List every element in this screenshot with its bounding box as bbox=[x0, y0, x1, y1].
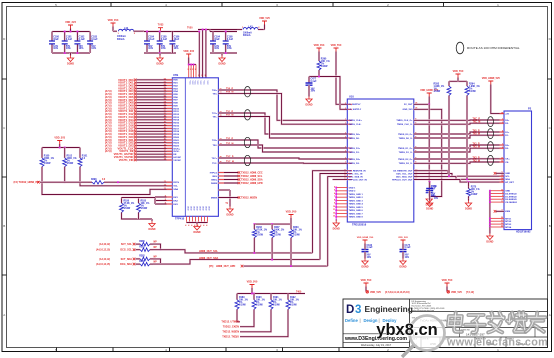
svg-text:SDA: SDA bbox=[505, 178, 510, 181]
svg-text:HD11F19A62: HD11F19A62 bbox=[516, 231, 531, 234]
svg-text:1/10W: 1/10W bbox=[471, 194, 478, 196]
node terminal VOUT1_D13 bbox=[134, 116, 137, 119]
ground DGND (cap bank 2) bbox=[159, 53, 161, 56]
svg-text:RD12: RD12 bbox=[173, 114, 179, 116]
resistor R101 bbox=[79, 148, 81, 156]
ground DGND (C196) bbox=[362, 259, 368, 265]
wire cap bank1 bottom bus bbox=[52, 52, 90, 54]
svg-text:0.1uF: 0.1uF bbox=[161, 38, 168, 41]
wire TX0_M to connector bbox=[414, 135, 504, 138]
svg-text:48: 48 bbox=[164, 118, 166, 121]
svg-text:Define: Define bbox=[345, 318, 358, 323]
wire NP row join bbox=[153, 244, 161, 250]
wire TXC_P to connector bbox=[414, 119, 504, 121]
svg-text:TMDS_D2_O+: TMDS_D2_O+ bbox=[398, 159, 413, 161]
svg-text:GND: GND bbox=[201, 206, 203, 211]
inductor L43 bbox=[237, 28, 242, 30]
op IC U10 TPD12S016 body bbox=[347, 99, 414, 222]
svg-text:D2-SHIELD: D2-SHIELD bbox=[505, 193, 517, 195]
svg-text:RD14: RD14 bbox=[173, 119, 179, 122]
pin TMDS_GND 5 of U10 bbox=[336, 206, 347, 208]
node terminal VOUT1_D17 bbox=[134, 127, 137, 130]
ground DGND (U7 bottom) bbox=[196, 223, 198, 225]
svg-text:5: 5 bbox=[334, 190, 335, 192]
svg-text:RD1: RD1 bbox=[173, 83, 178, 85]
svg-text:VDD_3V3: VDD_3V3 bbox=[54, 137, 65, 140]
svg-text:ybx8.cn: ybx8.cn bbox=[376, 321, 437, 339]
svg-text:HTPLUG_OUT_OUT: HTPLUG_OUT_OUT bbox=[392, 179, 413, 181]
svg-text:11: 11 bbox=[333, 209, 335, 211]
wire net VOUT1_D03 to U7 pin RD3 bbox=[136, 87, 172, 89]
svg-text:1/10W: 1/10W bbox=[141, 208, 148, 210]
wire U7 DK2 pin bbox=[155, 199, 172, 201]
resistor R190 bbox=[253, 294, 255, 298]
svg-text:21: 21 bbox=[501, 220, 503, 222]
wire R293 to SCL line bbox=[448, 98, 450, 176]
svg-text:RD3: RD3 bbox=[173, 88, 178, 90]
capacitor C185 bbox=[159, 32, 161, 42]
wire net VOUT1_D04 to U7 pin RD4 bbox=[136, 90, 172, 92]
pin HP_DET of P2 bbox=[500, 181, 505, 183]
node terminal VOUT1_D16 bbox=[134, 124, 137, 127]
wire cap bank1 top bus bbox=[52, 30, 90, 32]
svg-text:VCC: VCC bbox=[206, 81, 208, 86]
svg-text:46: 46 bbox=[164, 123, 166, 126]
wire net VOUT1_D05 to U7 pin RD5 bbox=[136, 93, 172, 95]
svg-text:VDD_3V3: VDD_3V3 bbox=[65, 21, 76, 24]
svg-text:12: 12 bbox=[333, 212, 335, 214]
svg-text:Wednesday, July 19, 2017: Wednesday, July 19, 2017 bbox=[361, 343, 392, 347]
wire U7 DK3 pin bbox=[155, 203, 172, 205]
node terminal VOUT1_D03 bbox=[134, 87, 137, 90]
resistor R185 bbox=[137, 201, 139, 204]
svg-text:7: 7 bbox=[502, 144, 503, 146]
power symbol VDD_5V0 tap 2 bbox=[445, 283, 450, 287]
svg-text:KSM: KSM bbox=[505, 211, 510, 213]
svg-text:TX1_P: TX1_P bbox=[473, 144, 480, 146]
svg-text:62: 62 bbox=[164, 79, 166, 81]
svg-text:1/10W: 1/10W bbox=[290, 305, 297, 307]
capacitor C477 bbox=[318, 73, 320, 77]
wire SDA riser to U10 bbox=[320, 174, 347, 260]
svg-text:TMDS_CLK_O-: TMDS_CLK_O- bbox=[397, 124, 413, 126]
svg-text:TX1-: TX1- bbox=[212, 116, 217, 118]
node terminal VOUT1_D04 bbox=[134, 90, 137, 93]
svg-text:40: 40 bbox=[164, 140, 166, 143]
wire DDC SCL to connector bbox=[414, 174, 504, 177]
wire cap bank3 top bus bbox=[198, 28, 237, 30]
svg-text:T400: T400 bbox=[296, 290, 302, 293]
ground DGND (R275) bbox=[467, 198, 469, 200]
pin MTG3 of P2 bbox=[490, 223, 504, 225]
node terminal VOUT1_DE bbox=[134, 150, 137, 153]
ground DGND (pullup bank) bbox=[151, 219, 153, 221]
svg-text:R280: R280 bbox=[139, 241, 145, 243]
diff pair ellipse U7 3 bbox=[244, 155, 250, 165]
svg-text:13: 13 bbox=[164, 188, 166, 190]
pin TMDS_GND 4 of U10 bbox=[336, 203, 347, 205]
svg-text:3: 3 bbox=[195, 69, 196, 71]
svg-text:TXD12_UTMS0: TXD12_UTMS0 bbox=[221, 321, 239, 324]
pin GND 2 of U10 bbox=[336, 190, 347, 192]
svg-text:1/10W: 1/10W bbox=[273, 305, 280, 307]
svg-text:RD9: RD9 bbox=[173, 105, 178, 107]
svg-text:10uF: 10uF bbox=[53, 38, 59, 41]
svg-text:RD5: RD5 bbox=[173, 94, 178, 96]
wire net VOUT1_D16 to U7 pin RD16 bbox=[136, 125, 172, 127]
pin TMDS_GND 3 of U10 bbox=[336, 200, 347, 202]
svg-text:GND: GND bbox=[198, 206, 200, 211]
svg-text:0.1uF: 0.1uF bbox=[311, 81, 318, 83]
svg-text:DGND: DGND bbox=[486, 241, 493, 244]
svg-text:TMDS_D2+: TMDS_D2+ bbox=[349, 159, 361, 161]
svg-text:TX1_M: TX1_M bbox=[473, 147, 480, 149]
svg-text:RD8: RD8 bbox=[173, 103, 178, 105]
svg-text:GND: GND bbox=[505, 191, 510, 193]
svg-text:TMDS_CLK_O+: TMDS_CLK_O+ bbox=[396, 120, 413, 122]
svg-text:IDCK+: IDCK+ bbox=[173, 148, 180, 150]
resistor R294 bbox=[466, 81, 468, 83]
svg-text:(A4,10,12,15): (A4,10,12,15) bbox=[96, 249, 110, 252]
svg-text:GND_5V0: GND_5V0 bbox=[403, 109, 414, 111]
svg-text:TX2_M: TX2_M bbox=[473, 161, 480, 163]
power symbol VDD_5V0 tap 1 bbox=[364, 283, 369, 287]
wire R101 bottom to SCL wire bbox=[80, 169, 172, 186]
power symbol VDD_3V3 (L42) bbox=[111, 23, 116, 27]
svg-text:TMDS_D1-: TMDS_D1- bbox=[349, 152, 360, 154]
node terminal VOUT1_D18 bbox=[134, 130, 137, 133]
diff pair ellipse U7 0 bbox=[244, 87, 250, 97]
svg-text:B: B bbox=[549, 224, 551, 228]
resistor R290 bbox=[318, 52, 320, 59]
wire VDD_5V0 to U10 IN_SUPPLY bbox=[336, 52, 347, 105]
capacitor C184 bbox=[146, 32, 148, 42]
capacitor C183 bbox=[89, 32, 91, 42]
svg-text:RST#: RST# bbox=[173, 182, 179, 184]
svg-text:7: 7 bbox=[345, 151, 346, 153]
svg-text:D1-: D1- bbox=[505, 135, 509, 137]
svg-text:D1-SHIELD: D1-SHIELD bbox=[505, 196, 517, 198]
svg-text:0.1uF: 0.1uF bbox=[227, 38, 234, 41]
pin pair D1+/D1- of P2 bbox=[500, 131, 505, 133]
wire DDC pullup bus bbox=[449, 80, 467, 82]
svg-text:10: 10 bbox=[501, 158, 503, 160]
svg-text:3: 3 bbox=[201, 75, 202, 77]
svg-text:1/10W: 1/10W bbox=[124, 208, 131, 210]
capacitor C194 bbox=[212, 32, 214, 42]
pin pair TMDS_D2+ of U10 left bbox=[347, 158, 352, 160]
svg-text:U10: U10 bbox=[349, 94, 354, 98]
svg-text:IDCK-: IDCK- bbox=[173, 151, 179, 153]
wire bottom bank bus bbox=[237, 292, 305, 294]
wire 5V_OUT to VDD_HDMI_5V0 bbox=[414, 97, 429, 105]
pin MTG4 of P2 bbox=[490, 226, 504, 228]
wire net VOUT1_D02 to U7 pin RD2 bbox=[136, 84, 172, 86]
svg-text:1/10W: 1/10W bbox=[67, 163, 74, 165]
svg-text:DGND: DGND bbox=[67, 63, 74, 66]
svg-text:7: 7 bbox=[345, 147, 346, 149]
wire net VOUT1_VSYNC to U7 pin HSYNC bbox=[136, 156, 172, 158]
svg-text:0.1uF: 0.1uF bbox=[66, 38, 73, 41]
wire net VOUT1_D17 to U7 pin RD17 bbox=[136, 127, 172, 129]
resistor R275 bbox=[468, 181, 470, 183]
wire R190 to TXD12_CKEN bbox=[240, 312, 254, 327]
title block dividers bbox=[409, 299, 411, 348]
watermark magnifier glass bbox=[410, 316, 445, 351]
svg-text:DDC_SCL_IN: DDC_SCL_IN bbox=[349, 173, 363, 175]
svg-text:13: 13 bbox=[501, 189, 503, 191]
svg-text:41: 41 bbox=[164, 138, 166, 141]
wire R102 bottom to RST wire bbox=[64, 169, 66, 182]
capacitor C182 bbox=[76, 32, 78, 42]
svg-text:DGND: DGND bbox=[148, 228, 155, 231]
diff pair ellipse U7 2 bbox=[244, 137, 250, 147]
wire net VOUT1_D15 to U7 pin RD15 bbox=[136, 122, 172, 124]
svg-text:RD6: RD6 bbox=[173, 97, 178, 99]
svg-text:TMDS_GND 7: TMDS_GND 7 bbox=[349, 213, 364, 215]
svg-text:CE_REMOTE_IN: CE_REMOTE_IN bbox=[349, 171, 366, 173]
svg-text:D: D bbox=[346, 304, 354, 316]
svg-text:13: 13 bbox=[333, 216, 335, 218]
svg-text:52: 52 bbox=[164, 107, 166, 109]
svg-text:GND: GND bbox=[189, 206, 191, 211]
op IC U7 TFP410 body bbox=[172, 78, 218, 217]
svg-text:23: 23 bbox=[501, 226, 503, 228]
pin TMDS_GND 6 of U10 bbox=[336, 209, 347, 211]
svg-text:RD13: RD13 bbox=[173, 117, 179, 119]
ground DGND (cap bank 3) bbox=[221, 53, 223, 56]
svg-text:ISEL: ISEL bbox=[212, 176, 218, 178]
svg-text:TXC_M: TXC_M bbox=[473, 122, 481, 124]
power symbol VDD_5V0 (bottom bank) bbox=[250, 285, 255, 289]
svg-text:39: 39 bbox=[164, 144, 166, 146]
node terminal VOUT1_FID bbox=[134, 159, 137, 162]
power flag TV33 bbox=[158, 28, 163, 32]
svg-text:1/10W: 1/10W bbox=[434, 91, 441, 93]
resistor R207 bbox=[271, 224, 273, 227]
wire net VOUT1_D21 to U7 pin RD21 bbox=[136, 139, 172, 141]
wire net VOUT1_D13 to U7 pin RD13 bbox=[136, 116, 172, 118]
pin TMDS_GND 1 of U10 bbox=[336, 193, 347, 195]
wire net VOUT1_D06 to U7 pin RD6 bbox=[136, 96, 172, 98]
svg-text:B: B bbox=[3, 224, 5, 228]
wire net VOUT1_HSYNC to U7 pin DE bbox=[136, 153, 172, 155]
annotation ellipse route note bbox=[456, 42, 464, 54]
wire R207 to bus below bbox=[271, 240, 273, 260]
svg-text:1000mA: 1000mA bbox=[117, 35, 126, 38]
pin D2-SHIELD of P2 bbox=[490, 193, 504, 195]
wire CE_REMOTE_OUT stub bbox=[414, 170, 448, 172]
svg-text:10%: 10% bbox=[431, 196, 436, 198]
svg-text:TXC_P: TXC_P bbox=[473, 119, 481, 121]
svg-text:VDD_5V0: VDD_5V0 bbox=[331, 44, 342, 47]
svg-text:TXD12_MSEN: TXD12_MSEN bbox=[241, 196, 257, 199]
svg-text:[F5]: [F5] bbox=[209, 266, 213, 268]
svg-text:7: 7 bbox=[345, 158, 346, 160]
svg-text:10%: 10% bbox=[405, 257, 410, 259]
wire net VOUT1_DE to U7 pin IDCK- bbox=[136, 150, 172, 152]
node terminal VOUT1_D20 bbox=[134, 136, 137, 139]
ground DGND (C176) bbox=[426, 197, 432, 203]
svg-text:LS_SUPPLY: LS_SUPPLY bbox=[349, 109, 362, 111]
resistor R282 bbox=[136, 258, 138, 260]
svg-text:8: 8 bbox=[165, 196, 166, 198]
resistor R102 bbox=[64, 148, 66, 156]
wire U10 ground pin bus bbox=[335, 188, 337, 220]
power symbol VDD_5V0 (C175) bbox=[401, 240, 406, 244]
svg-text:[7,5,12]: [7,5,12] bbox=[466, 292, 474, 294]
svg-text:+5V: +5V bbox=[505, 114, 509, 116]
svg-text:VCC: VCC bbox=[199, 81, 201, 86]
svg-text:45: 45 bbox=[164, 126, 166, 129]
wire TX1_P to connector bbox=[414, 145, 504, 148]
wire VDD_HDMI_5V0 to connector +5V pin bbox=[491, 85, 504, 114]
wire DDC SDA to connector bbox=[414, 177, 504, 180]
svg-text:7: 7 bbox=[345, 133, 346, 135]
svg-text:VCC: VCC bbox=[193, 81, 195, 86]
svg-text:8: 8 bbox=[165, 199, 166, 201]
ground DGND (U10 gnd bus) bbox=[335, 220, 337, 221]
wire cap bank3 buses bbox=[209, 30, 211, 32]
svg-text:36: 36 bbox=[164, 153, 166, 155]
svg-text:HDMI_OUT_SCL: HDMI_OUT_SCL bbox=[199, 250, 218, 253]
diff pair ellipse conn 3 bbox=[488, 155, 494, 165]
svg-text:1/10W: 1/10W bbox=[293, 235, 300, 237]
svg-text:600mA: 600mA bbox=[243, 34, 251, 37]
svg-text:P2: P2 bbox=[528, 106, 532, 110]
svg-text:TX2+: TX2+ bbox=[212, 140, 218, 142]
svg-text:0.1uF: 0.1uF bbox=[405, 247, 412, 249]
power symbol VDD_HDMI_5V0 bbox=[427, 93, 432, 97]
svg-text:TXD12_CKEN: TXD12_CKEN bbox=[223, 326, 239, 329]
svg-text:HDMI_OUT_SDA: HDMI_OUT_SDA bbox=[199, 257, 218, 260]
capacitor C181 bbox=[64, 32, 66, 42]
svg-text:16V: 16V bbox=[434, 198, 439, 200]
svg-text:TX2-: TX2- bbox=[212, 145, 217, 147]
wire net VOUT1_D14 to U7 pin RD14 bbox=[136, 119, 172, 121]
svg-text:20: 20 bbox=[501, 217, 503, 219]
svg-text:RD10: RD10 bbox=[173, 108, 179, 110]
svg-text:GND: GND bbox=[207, 206, 209, 211]
svg-text:VDD_5V0: VDD_5V0 bbox=[442, 279, 453, 282]
svg-text:RD18: RD18 bbox=[173, 131, 179, 133]
svg-text:CK-SHIELD: CK-SHIELD bbox=[505, 202, 517, 204]
wire CE riser to U10 bbox=[333, 178, 348, 180]
svg-text:1/10W: 1/10W bbox=[239, 305, 246, 307]
svg-text:3: 3 bbox=[502, 122, 503, 124]
svg-text:VDD_3V3: VDD_3V3 bbox=[314, 44, 325, 47]
svg-text:TX2_P: TX2_P bbox=[473, 157, 480, 159]
svg-text:RD19: RD19 bbox=[173, 134, 179, 136]
svg-text:HTPLG: HTPLG bbox=[210, 172, 218, 174]
svg-text:10uF: 10uF bbox=[214, 38, 220, 41]
svg-text:TV33: TV33 bbox=[158, 24, 164, 27]
svg-text:TX1+: TX1+ bbox=[212, 113, 218, 115]
svg-text:TMDS_D1_O+: TMDS_D1_O+ bbox=[398, 148, 413, 150]
svg-text:3: 3 bbox=[355, 304, 361, 316]
svg-text:CE_REMOTE_OUT: CE_REMOTE_OUT bbox=[393, 171, 413, 173]
svg-text:10%: 10% bbox=[367, 257, 372, 259]
wire net VOUT1_D23 to U7 pin RD23 bbox=[136, 145, 172, 147]
svg-text:CK-: CK- bbox=[505, 162, 509, 164]
svg-text:TMDS_CLK-: TMDS_CLK- bbox=[349, 124, 362, 126]
resistor R298 bbox=[88, 181, 92, 183]
node terminal VOUT1_D14 bbox=[134, 119, 137, 122]
svg-text:DGND: DGND bbox=[333, 228, 340, 231]
wire R209 to bus below bbox=[290, 240, 292, 266]
svg-text:7: 7 bbox=[345, 162, 346, 164]
svg-text:57: 57 bbox=[164, 93, 166, 95]
pin MTG2 of P2 bbox=[490, 220, 504, 222]
pin D1-SHIELD of P2 bbox=[490, 195, 504, 197]
svg-text:VCC: VCC bbox=[203, 81, 205, 86]
svg-text:DE: DE bbox=[173, 154, 177, 156]
svg-text:(A7,6): (A7,6) bbox=[105, 150, 112, 153]
svg-text:DGND: DGND bbox=[156, 63, 163, 66]
pin D0-SHIELD of P2 bbox=[490, 198, 504, 200]
node terminal VOUT1_VSYNC bbox=[134, 156, 137, 159]
svg-text:5V_OUT: 5V_OUT bbox=[404, 104, 413, 106]
svg-text:SCL: SCL bbox=[505, 176, 510, 178]
ground DGND (cap bank 1) bbox=[69, 53, 71, 56]
svg-text:TV50: TV50 bbox=[187, 28, 193, 30]
node terminal VOUT1_D10 bbox=[134, 107, 137, 110]
svg-text:600mA: 600mA bbox=[117, 38, 125, 41]
svg-text:VDD_5V0: VDD_5V0 bbox=[370, 291, 381, 294]
svg-text:D2+: D2+ bbox=[505, 120, 510, 122]
wire R192 to TXD12_TXD[U bbox=[240, 312, 288, 337]
wire HDMI_INT to U7 RST pin bbox=[40, 181, 88, 183]
svg-text:2: 2 bbox=[502, 192, 503, 194]
wire differential pair TX0_P bbox=[218, 90, 347, 120]
diff pair ellipse conn 1 bbox=[488, 129, 494, 139]
wire net VOUT1_D07 to U7 pin RD7 bbox=[136, 99, 172, 101]
svg-text:1: 1 bbox=[502, 119, 503, 121]
svg-text:GND: GND bbox=[186, 206, 188, 211]
svg-text:VDD_5V0: VDD_5V0 bbox=[259, 17, 270, 20]
wire differential pair TX2_P bbox=[218, 140, 347, 148]
svg-text:6: 6 bbox=[334, 193, 335, 195]
svg-text:50: 50 bbox=[164, 113, 166, 115]
pin pair TMDS_CLK+ of U10 left bbox=[347, 119, 352, 121]
svg-text:49: 49 bbox=[164, 115, 166, 118]
wire net VOUT1_D09 to U7 pin RD9 bbox=[136, 104, 172, 106]
wire SCL riser to U10 bbox=[313, 171, 348, 253]
wire net VOUT1_D22 to U7 pin RD22 bbox=[136, 142, 172, 144]
node terminal VOUT1_D12 bbox=[134, 113, 137, 116]
svg-text:DDC_SDA_IN: DDC_SDA_IN bbox=[349, 176, 363, 179]
resistor R189 bbox=[236, 294, 238, 298]
svg-text:3: 3 bbox=[205, 75, 206, 77]
wire NP row join bbox=[153, 259, 161, 264]
svg-text:MSEN: MSEN bbox=[211, 197, 218, 199]
wire GND_5V0 to ground bbox=[414, 109, 442, 196]
svg-text:TX0-: TX0- bbox=[212, 93, 217, 95]
node terminal VOUT1_D00 bbox=[134, 79, 137, 82]
svg-text:VDD_3V3: VDD_3V3 bbox=[108, 19, 119, 22]
ground DGND (U7 MSEN) bbox=[227, 207, 233, 213]
pin pair D2+/D2- of P2 bbox=[500, 119, 505, 121]
svg-text:R283: R283 bbox=[139, 261, 145, 263]
svg-text:1/10W: 1/10W bbox=[469, 91, 476, 93]
svg-text:VDD_HDMI_5V0: VDD_HDMI_5V0 bbox=[482, 77, 501, 80]
svg-text:3: 3 bbox=[198, 75, 199, 77]
wire R186 R185 tops bbox=[120, 198, 122, 201]
svg-text:VDD_5V0: VDD_5V0 bbox=[361, 279, 372, 282]
svg-text:(A4,10,12): (A4,10,12) bbox=[99, 258, 110, 261]
pin HTPLUG_OUT_IN of U10 bbox=[347, 179, 352, 181]
svg-text:3: 3 bbox=[187, 69, 188, 71]
